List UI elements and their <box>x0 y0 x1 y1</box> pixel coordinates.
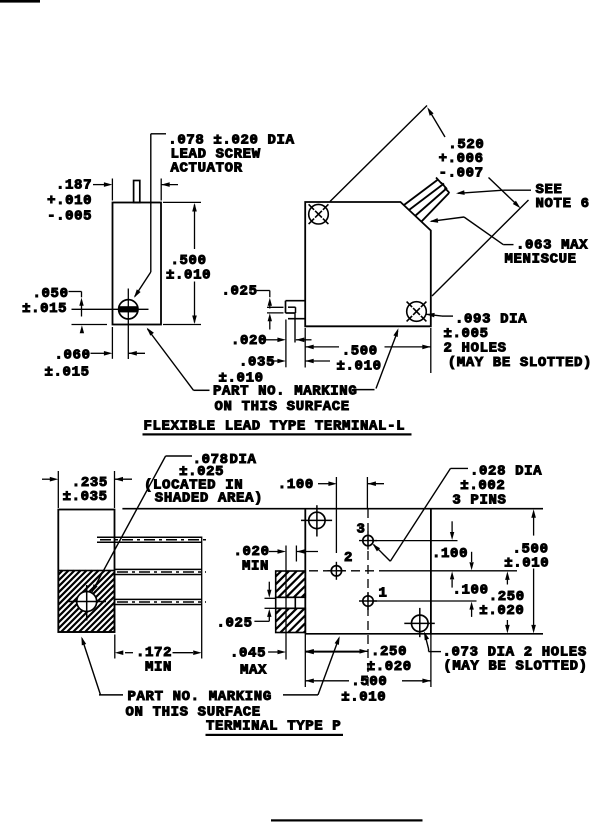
dimension .235 +-.035 <box>42 471 132 508</box>
label see note 6 with leader <box>456 182 590 212</box>
svg-text:.050: .050 <box>33 286 69 302</box>
svg-text:SHADED AREA): SHADED AREA) <box>155 490 263 506</box>
svg-text:±.020: ±.020 <box>479 603 524 619</box>
label part no. marking on this surface (bottom) <box>99 689 318 721</box>
svg-text:-.005: -.005 <box>47 209 92 225</box>
dimension .250 +-.020 vertical <box>479 571 524 633</box>
svg-text:±.010: ±.010 <box>337 358 382 374</box>
svg-text:+.010: +.010 <box>47 193 92 209</box>
front view body (terminal L) <box>305 202 431 326</box>
caption flexible lead type terminal-L <box>143 419 412 436</box>
dimension .025 (terminal P) <box>217 582 276 632</box>
svg-text:.500: .500 <box>351 674 387 690</box>
svg-text:3 PINS: 3 PINS <box>452 493 506 509</box>
dimension .100 vertical pin2-pin1 <box>453 552 489 617</box>
shaded (hatched) area of side view <box>58 571 114 633</box>
mounting hole top-left (may be slotted) <box>309 204 329 224</box>
svg-text:MENISCUE: MENISCUE <box>505 252 577 268</box>
svg-text:.187: .187 <box>56 178 92 194</box>
label part no. marking on this surface (top) <box>194 384 375 416</box>
lead screw centerline horizontal <box>72 308 149 310</box>
hatched terminal plate upper <box>276 571 306 597</box>
svg-text:±.020: ±.020 <box>367 659 412 675</box>
lead screw circle with slot <box>119 300 138 319</box>
caption terminal type P <box>206 719 344 737</box>
dimension .500 +-.010 (front view width) <box>305 328 431 374</box>
svg-text:±.015: ±.015 <box>45 365 90 381</box>
svg-text:-.007: -.007 <box>439 166 484 182</box>
svg-text:(MAY BE SLOTTED): (MAY BE SLOTTED) <box>448 355 592 371</box>
dimension .172 min <box>115 537 202 676</box>
leader to front view bottom (terminal P) <box>318 636 340 695</box>
side view body (terminal P) <box>58 510 114 633</box>
svg-text:MIN: MIN <box>242 558 269 574</box>
label .028 dia +-.002 3 pins <box>452 464 542 509</box>
dimension .020 min (terminal P) <box>234 544 319 660</box>
bottom rule <box>271 819 423 821</box>
dimension .500 +-.010 (side view height) <box>163 202 211 324</box>
leader .078 dia to circle <box>92 456 193 593</box>
dimension .187 +.010 -.005 label <box>47 178 92 225</box>
svg-text:2: 2 <box>344 550 353 566</box>
dimension .520 +.006 -.007 <box>427 107 520 208</box>
svg-text:.250: .250 <box>371 644 407 660</box>
label .073 dia 2 holes with leader <box>424 632 588 675</box>
svg-text:PART NO. MARKING: PART NO. MARKING <box>128 689 272 705</box>
svg-text:.100: .100 <box>278 477 314 493</box>
hatched terminal plate lower <box>276 608 306 632</box>
dimension .100 horizontal (pin offset) <box>278 477 384 553</box>
svg-text:MIN: MIN <box>145 660 172 676</box>
lead row 3 (bottom) <box>115 599 207 604</box>
svg-text:±.010: ±.010 <box>504 556 549 572</box>
leader to front view bottom surface <box>376 328 398 388</box>
svg-text:3: 3 <box>357 522 366 538</box>
pin 1 circle <box>359 592 377 610</box>
lead row 2 (middle) <box>115 569 207 574</box>
dimension .060 +-.015 <box>45 325 146 381</box>
svg-text:±.035: ±.035 <box>63 489 108 505</box>
svg-text:ACTUATOR: ACTUATOR <box>171 161 243 177</box>
svg-text:.020: .020 <box>231 333 267 349</box>
dimension .500 +-.010 horizontal <box>305 634 431 706</box>
pin 2 centerline horizontal (dashed) <box>309 570 382 572</box>
mounting hole bottom-right (may be slotted) <box>407 302 427 322</box>
extension lines for lug dimensions <box>267 307 286 367</box>
lead screw actuator tab <box>134 181 140 203</box>
dimension .020 (lug step) <box>231 333 312 349</box>
svg-text:±.010: ±.010 <box>341 690 386 706</box>
dimension .187 arrows and extension lines <box>93 179 178 201</box>
label .063 max meniscue with leader <box>430 217 589 268</box>
dimension .045 max (terminal P) <box>230 646 360 679</box>
side view body (terminal L) <box>113 203 162 325</box>
svg-text:±.015: ±.015 <box>22 301 67 317</box>
pin labels 3 2 1 <box>344 522 388 602</box>
svg-text:PART NO. MARKING: PART NO. MARKING <box>213 384 357 400</box>
dimension .050 +-.015 label <box>22 286 68 317</box>
label .093 dia 2 holes with leader <box>426 312 593 372</box>
svg-text:.100: .100 <box>432 546 468 562</box>
label .078 dia lead screw actuator <box>168 133 294 177</box>
svg-text:1: 1 <box>379 586 388 602</box>
mounting hole top-left (terminal P) <box>301 505 332 536</box>
pin 3 circle <box>359 532 377 550</box>
svg-text:.060: .060 <box>55 348 91 364</box>
projection line / front view top edge <box>122 508 543 510</box>
dimension .035 +-.010 (lug) <box>219 355 331 387</box>
lead screw centerline vertical <box>127 289 129 360</box>
svg-text:ON THIS SURFACE: ON THIS SURFACE <box>215 399 350 415</box>
label .078 dia +-.025 located in shaded area <box>144 452 263 506</box>
svg-text:.500: .500 <box>342 344 378 360</box>
dimension .100 vertical pin3-pin2 <box>432 521 468 587</box>
dimension .500 +-.010 vertical <box>504 509 549 633</box>
dimension .050 leader and arrows <box>69 292 85 334</box>
svg-text:DIA: DIA <box>230 452 257 468</box>
svg-text:.025: .025 <box>222 284 258 300</box>
terminal step (white) <box>276 597 296 608</box>
page corner mark <box>0 0 40 3</box>
svg-text:FLEXIBLE LEAD TYPE TERMINAL-L: FLEXIBLE LEAD TYPE TERMINAL-L <box>144 419 406 435</box>
extension line 45deg through top edge <box>330 106 427 202</box>
svg-text:MAX: MAX <box>240 662 267 678</box>
front view body (terminal P) <box>305 509 543 634</box>
svg-text:.035: .035 <box>239 355 275 371</box>
leader from .078 label to lead screw <box>134 134 166 298</box>
extension line 45deg through right edge <box>432 200 529 296</box>
mounting hole bottom-right (terminal P) <box>404 608 435 637</box>
dimension .025 (lug ext) label and arrows <box>222 284 273 330</box>
svg-text:TERMINAL TYPE P: TERMINAL TYPE P <box>206 719 341 735</box>
svg-text:.045: .045 <box>230 646 266 662</box>
svg-text:NOTE 6: NOTE 6 <box>536 196 590 212</box>
leader .028 dia to pin 3 <box>373 468 469 561</box>
pin centerline vertical (dashed) <box>367 509 369 687</box>
dimension .250 +-.020 horizontal <box>305 644 412 675</box>
svg-text:.100: .100 <box>453 583 489 599</box>
svg-text:(MAY BE SLOTTED): (MAY BE SLOTTED) <box>443 659 587 675</box>
svg-text:.025: .025 <box>217 616 253 632</box>
pin level extension lines <box>374 541 517 601</box>
lead screw circle (side view P) <box>69 585 107 621</box>
lead row 1 (top) <box>97 537 206 542</box>
svg-text:±.010: ±.010 <box>166 268 211 284</box>
leader part no. marking to side view <box>147 328 194 391</box>
flexible leads at chamfer <box>404 178 450 223</box>
pin 2 circle <box>327 562 345 580</box>
terminal lug on left edge <box>286 301 306 343</box>
leader to side view bottom (terminal P) <box>81 637 100 695</box>
